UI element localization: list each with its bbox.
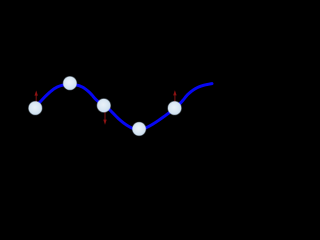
ball 5	[167, 101, 181, 115]
ball 4 (trough)	[132, 122, 146, 136]
ball 2 (crest)	[63, 76, 77, 90]
ball 1	[28, 101, 42, 115]
arrow up at ball 1	[35, 91, 38, 104]
arrow down at ball 3	[103, 112, 106, 125]
wave curve (wire)	[34, 84, 212, 130]
ball 3	[97, 98, 111, 112]
arrow up at ball 5	[173, 90, 176, 101]
